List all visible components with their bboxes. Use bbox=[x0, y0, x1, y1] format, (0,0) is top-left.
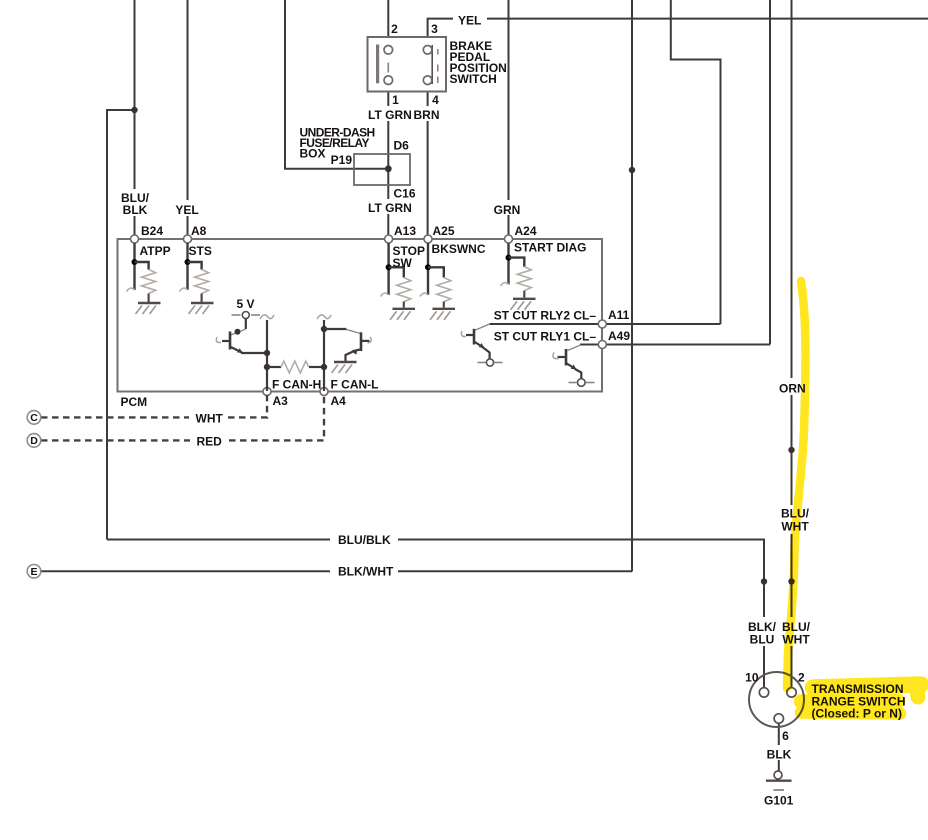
svg-text:C16: C16 bbox=[394, 187, 416, 201]
svg-text:BLU: BLU bbox=[750, 633, 775, 647]
svg-text:BLK: BLK bbox=[123, 203, 148, 217]
svg-text:LT GRN: LT GRN bbox=[368, 201, 412, 215]
svg-text:6: 6 bbox=[782, 729, 789, 743]
svg-text:ST CUT RLY2 CL–: ST CUT RLY2 CL– bbox=[494, 309, 597, 323]
svg-text:YEL: YEL bbox=[458, 14, 481, 28]
svg-text:BKSWNC: BKSWNC bbox=[432, 242, 486, 256]
svg-text:BLK/WHT: BLK/WHT bbox=[338, 565, 394, 579]
svg-text:BOX: BOX bbox=[300, 147, 326, 161]
svg-text:RED: RED bbox=[197, 435, 223, 449]
svg-text:START DIAG: START DIAG bbox=[514, 241, 586, 255]
svg-text:A25: A25 bbox=[433, 224, 455, 238]
svg-text:C: C bbox=[30, 412, 38, 424]
svg-text:BRN: BRN bbox=[414, 108, 440, 122]
svg-text:SWITCH: SWITCH bbox=[450, 72, 497, 86]
svg-text:3: 3 bbox=[431, 22, 438, 36]
svg-text:D6: D6 bbox=[394, 139, 410, 153]
svg-text:GRN: GRN bbox=[494, 203, 521, 217]
svg-text:BLU/BLK: BLU/BLK bbox=[338, 533, 391, 547]
svg-text:2: 2 bbox=[798, 671, 805, 685]
svg-text:LT GRN: LT GRN bbox=[368, 108, 412, 122]
svg-text:E: E bbox=[30, 566, 37, 578]
svg-text:5 V: 5 V bbox=[237, 297, 255, 311]
svg-text:F CAN-L: F CAN-L bbox=[331, 378, 379, 392]
svg-text:F CAN-H: F CAN-H bbox=[272, 378, 321, 392]
svg-text:A13: A13 bbox=[394, 224, 416, 238]
svg-text:P19: P19 bbox=[331, 153, 353, 167]
svg-text:2: 2 bbox=[391, 22, 398, 36]
svg-text:A49: A49 bbox=[608, 329, 630, 343]
svg-text:B24: B24 bbox=[141, 224, 163, 238]
svg-text:YEL: YEL bbox=[175, 203, 198, 217]
svg-text:G101: G101 bbox=[764, 794, 794, 808]
svg-text:A24: A24 bbox=[515, 224, 537, 238]
svg-text:ST CUT RLY1 CL–: ST CUT RLY1 CL– bbox=[494, 330, 597, 344]
svg-text:ATPP: ATPP bbox=[140, 244, 171, 258]
svg-text:SW: SW bbox=[393, 256, 413, 270]
svg-text:A3: A3 bbox=[273, 394, 289, 408]
svg-text:WHT: WHT bbox=[196, 412, 224, 426]
svg-text:STS: STS bbox=[189, 244, 212, 258]
svg-text:PCM: PCM bbox=[121, 395, 148, 409]
svg-text:D: D bbox=[30, 435, 38, 447]
svg-text:1: 1 bbox=[392, 93, 399, 107]
svg-text:A8: A8 bbox=[191, 224, 207, 238]
svg-text:A4: A4 bbox=[331, 394, 347, 408]
svg-text:10: 10 bbox=[745, 671, 759, 685]
svg-text:4: 4 bbox=[432, 93, 439, 107]
svg-text:A11: A11 bbox=[608, 308, 630, 322]
svg-text:BLK: BLK bbox=[767, 748, 792, 762]
